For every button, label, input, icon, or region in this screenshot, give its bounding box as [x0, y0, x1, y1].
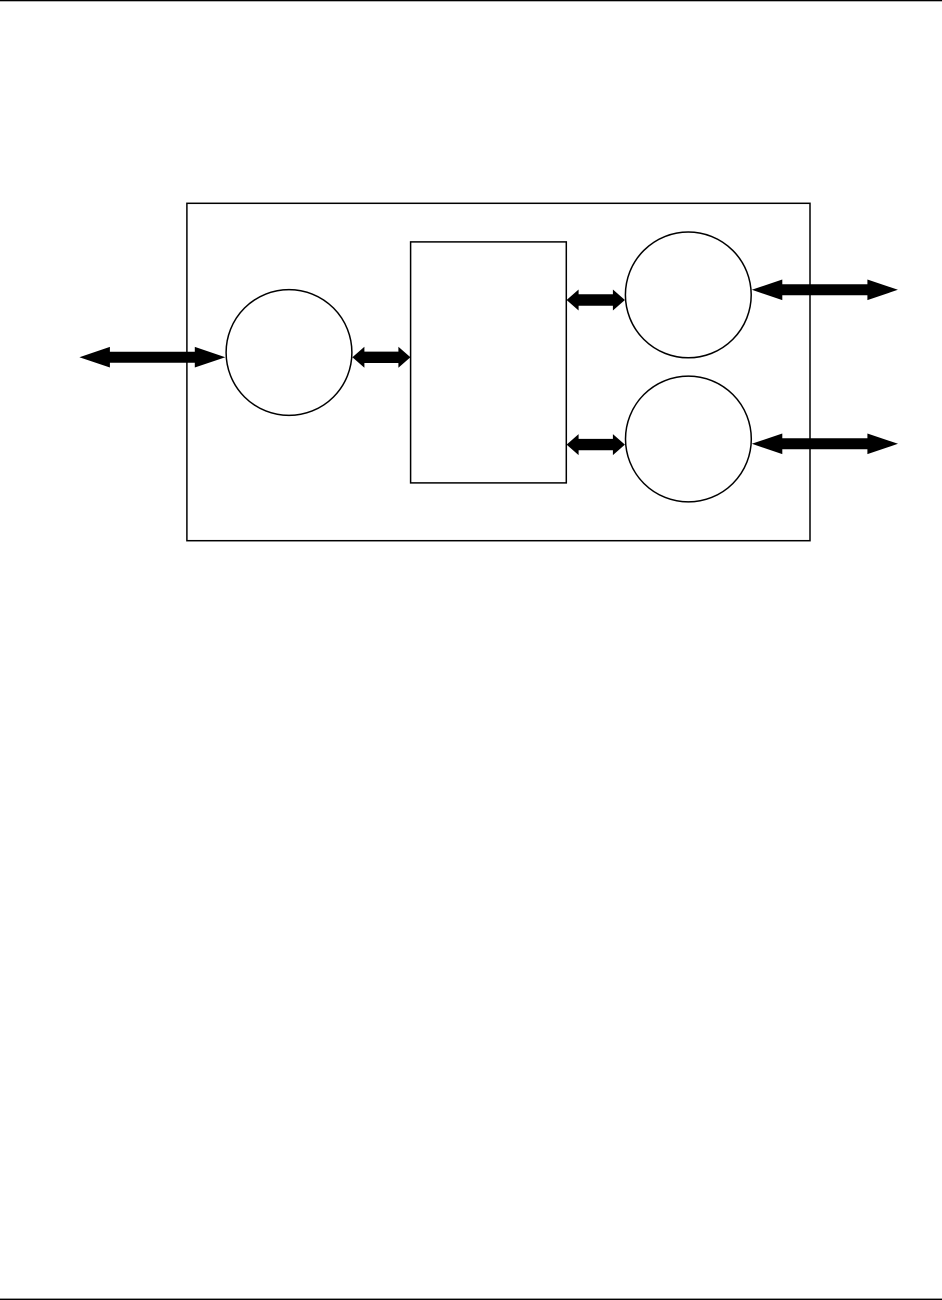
bottom-right circle node: [626, 376, 752, 502]
bottom-right double arrow: [752, 434, 898, 455]
system boundary rectangle: [187, 203, 810, 540]
far-left double arrow: [79, 347, 225, 368]
left circle node: [226, 290, 352, 416]
header rule: [0, 0, 942, 1]
top short double arrow: [567, 290, 625, 311]
bottom short double arrow: [567, 434, 625, 455]
top-right circle node: [625, 232, 751, 358]
central block rectangle: [411, 242, 567, 483]
footer rule: [0, 1299, 942, 1300]
top-right double arrow: [752, 280, 898, 301]
left short double arrow: [352, 347, 410, 368]
